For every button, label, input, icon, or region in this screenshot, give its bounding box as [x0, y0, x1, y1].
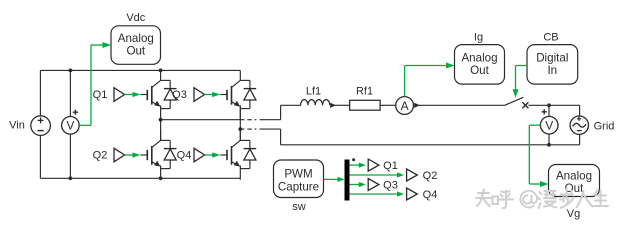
diode D2 (antiparallel): [161, 140, 177, 168]
diode D3 (antiparallel): [240, 80, 256, 108]
node Q1 label: [93, 89, 108, 101]
breaker switch CB: [505, 97, 529, 108]
wire: demux out Q2: [350, 172, 405, 177]
Goto tag Q4: [407, 188, 418, 200]
svg-text:Vdc: Vdc: [126, 12, 145, 24]
Q1 collector wire: [152, 80, 161, 87]
resistor Rf1: [350, 100, 380, 110]
Goto tag Q3: [368, 179, 379, 191]
svg-text:Out: Out: [126, 45, 145, 58]
svg-text:Vg: Vg: [567, 208, 580, 220]
wire: demux out Q4: [350, 191, 405, 196]
svg-text:In: In: [547, 64, 557, 77]
svg-text:Analog: Analog: [118, 32, 154, 45]
svg-text:PWM: PWM: [284, 168, 312, 181]
text in CB block: [536, 52, 568, 78]
wire: bridge output (lower) to grid return: [240, 129, 579, 145]
source Vin (DC): [31, 116, 51, 136]
junction: right leg midpoint node: [238, 127, 242, 131]
diode D4 (antiparallel): [240, 140, 256, 168]
polarity + of Vg meter: [542, 109, 547, 114]
wire: demux out Q3: [350, 182, 366, 187]
block Analog Out (Vg): [549, 165, 600, 197]
svg-text:CB: CB: [543, 32, 558, 44]
source Grid (AC): [570, 116, 588, 134]
Q4 emitter: [232, 161, 241, 167]
From tag Q4: [194, 148, 205, 162]
demux annotation *: [352, 158, 355, 161]
Q1 emitter: [152, 101, 161, 107]
voltmeter V (Vdc): [62, 117, 80, 135]
node sw label: [292, 201, 306, 213]
node Q2 label: [93, 150, 108, 162]
svg-text:Vin: Vin: [9, 119, 25, 131]
wire: arrow after Lf1: [330, 103, 350, 108]
wire: [579, 134, 581, 145]
node Vdc label: [126, 12, 145, 24]
wire: [548, 134, 550, 145]
svg-text:Q2: Q2: [93, 150, 108, 162]
svg-text:Q4: Q4: [177, 150, 192, 162]
svg-text:V: V: [66, 119, 74, 133]
node Grid label: [594, 120, 615, 132]
node Q3 tag label: [383, 179, 398, 191]
wire: left leg mid: [160, 120, 162, 141]
From tag Q2: [114, 148, 125, 162]
Q2 emitter: [152, 161, 161, 167]
junction on top rail at voltmeter: [69, 69, 73, 73]
node Vin label: [9, 119, 25, 131]
svg-text:V: V: [545, 119, 553, 133]
value label Lf1: [306, 86, 321, 98]
svg-text:Lf1: Lf1: [306, 86, 321, 98]
wire: Vin rail: [39, 70, 41, 178]
node Q4 label: [177, 150, 192, 162]
wire: Vdc measurement signal: [79, 42, 111, 125]
svg-text:A: A: [401, 99, 409, 113]
Q2 collector wire: [152, 140, 161, 147]
wire: [160, 130, 162, 140]
wire: Vg measurement signal: [529, 125, 548, 187]
wire: bottom DC rail: [40, 177, 240, 179]
junction on top rail at left leg: [159, 69, 163, 73]
junction on bottom rail at left leg: [159, 176, 163, 180]
svg-text:Q4: Q4: [423, 189, 438, 201]
text in Vg block: [556, 170, 592, 196]
svg-text:Q1: Q1: [93, 89, 108, 101]
svg-text:Q3: Q3: [383, 179, 398, 191]
svg-text:Q1: Q1: [383, 160, 398, 172]
transistor Q3 (IGBT): [227, 86, 232, 105]
svg-text:Out: Out: [565, 182, 584, 195]
wire: [528, 104, 579, 106]
wire: gate signal Q3: [205, 92, 227, 97]
junction at Vg meter bottom: [547, 143, 551, 147]
block Analog Out (Ig): [455, 45, 505, 85]
diode D1 (antiparallel): [161, 80, 177, 108]
wire: [380, 104, 396, 106]
svg-text:Out: Out: [470, 64, 489, 77]
block Analog Out (Vdc): [111, 26, 161, 65]
block PWM Capture: [274, 160, 324, 198]
ammeter A (Ig sensor): [396, 97, 414, 115]
wire: [548, 105, 550, 116]
From tag Q1: [114, 88, 125, 102]
svg-text:Analog: Analog: [556, 170, 592, 183]
svg-text:Ig: Ig: [474, 32, 483, 44]
value label Rf1: [356, 86, 373, 98]
wire: [239, 130, 241, 140]
node CB label: [543, 32, 558, 44]
Goto tag Q1: [368, 159, 379, 171]
text in Vdc block: [118, 32, 154, 58]
wire: [239, 165, 241, 179]
wire: [160, 70, 162, 80]
wire: PWM to demux: [324, 177, 345, 182]
wire: DC voltmeter rail: [69, 70, 71, 178]
wire: demux out Q1: [350, 163, 366, 168]
wire: gate signal Q2: [125, 152, 148, 157]
wire: top DC rail: [40, 69, 240, 71]
block Digital In (CB): [527, 45, 578, 85]
svg-text:Capture: Capture: [278, 181, 319, 194]
node Vg label: [567, 208, 580, 220]
transistor Q1 (IGBT): [147, 86, 152, 105]
node Q2 tag label: [423, 170, 438, 182]
junction at Vg meter top: [547, 103, 551, 107]
wire: CB control signal: [513, 66, 528, 98]
Goto tag Q2: [407, 169, 418, 181]
wire: gate signal Q1: [125, 92, 148, 97]
svg-text:Grid: Grid: [594, 120, 615, 132]
wire: [579, 105, 581, 116]
svg-text:Analog: Analog: [461, 52, 497, 65]
node Q4 tag label: [423, 189, 438, 201]
wire: right leg mid: [239, 105, 241, 140]
wire: gate signal Q4: [205, 152, 227, 157]
junction: left leg midpoint node: [159, 118, 163, 122]
svg-text:sw: sw: [292, 201, 306, 213]
watermark 知乎 @漫步人生: [476, 189, 608, 208]
Q3 collector wire: [232, 80, 241, 87]
junction on bottom rail at voltmeter: [69, 176, 73, 180]
transistor Q2 (IGBT): [147, 146, 152, 165]
voltmeter V (Vg): [540, 116, 558, 134]
Q3 emitter: [232, 101, 241, 107]
wire: [160, 165, 162, 179]
svg-text:Q3: Q3: [172, 89, 187, 101]
wire: bridge output (upper) to filter: [161, 105, 301, 119]
From tag Q3: [194, 88, 205, 102]
svg-text:Digital: Digital: [536, 52, 568, 65]
text in Ig block: [461, 52, 497, 78]
demux (bus selector): [345, 160, 350, 201]
wire: [160, 105, 162, 119]
node Ig label: [474, 32, 483, 44]
wire: [239, 70, 241, 80]
node Q3 label: [172, 89, 187, 101]
svg-text:Rf1: Rf1: [356, 86, 373, 98]
node Q1 tag label: [383, 160, 398, 172]
text in PWM block: [278, 168, 319, 194]
transistor Q4 (IGBT): [227, 146, 232, 165]
wire: [239, 105, 241, 119]
Q4 collector wire: [232, 140, 241, 147]
wire: Ig measurement signal: [405, 63, 455, 97]
inductor Lf1: [301, 100, 330, 106]
svg-text:Q2: Q2: [423, 170, 438, 182]
wire: arrow after ammeter: [414, 103, 505, 108]
polarity + of Vdc meter: [73, 110, 78, 115]
